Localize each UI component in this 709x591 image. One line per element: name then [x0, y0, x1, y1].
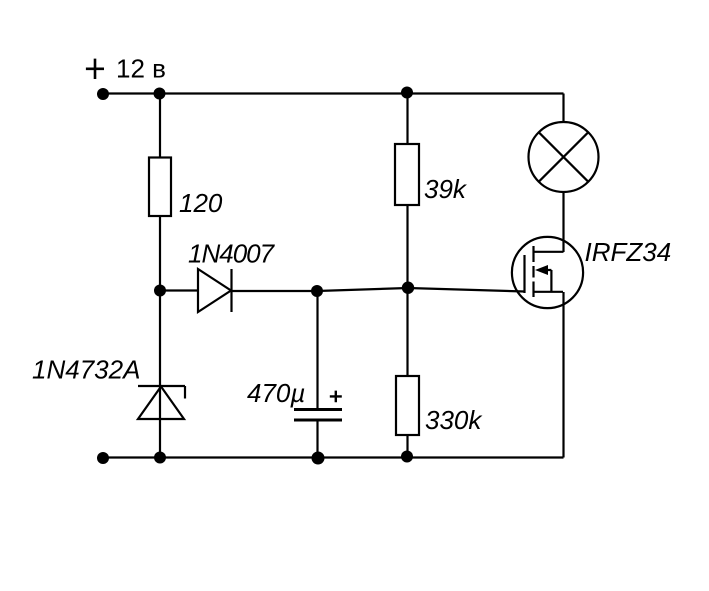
capacitor 470µ: [247, 291, 342, 458]
label +12V supply: [86, 54, 166, 84]
node bottom rail / left column junction: [154, 452, 166, 464]
svg-text:120: 120: [179, 188, 223, 218]
node top rail / middle column junction: [401, 87, 413, 99]
wire middle column middle: [406, 205, 408, 376]
wire left column lower: [159, 216, 161, 458]
node top-left terminal: [97, 88, 109, 100]
wire left column upper: [159, 94, 161, 158]
svg-text:12 в: 12 в: [116, 54, 166, 84]
wire top rail: [103, 92, 564, 94]
wire diode anode lead: [160, 289, 198, 291]
wire mosfet source to bottom rail: [562, 292, 564, 458]
node bottom-left terminal: [97, 452, 109, 464]
resistor 39k: [395, 144, 468, 205]
node bottom rail / capacitor junction: [312, 452, 325, 465]
node top rail / left column junction: [154, 88, 166, 100]
svg-text:1N4007: 1N4007: [188, 239, 276, 269]
node left column / diode row junction: [154, 285, 166, 297]
transistor IRFZ34 MOSFET: [512, 237, 671, 308]
wire lamp top lead: [562, 94, 564, 123]
resistor 330k: [396, 376, 483, 435]
node bottom rail / middle column junction: [401, 451, 413, 463]
wire bottom rail: [103, 456, 564, 458]
diode 1N4007: [188, 239, 276, 313]
wire diode row to gate: [232, 288, 525, 292]
resistor 120: [149, 158, 223, 219]
svg-text:1N4732A: 1N4732A: [32, 355, 140, 385]
svg-text:IRFZ34: IRFZ34: [585, 237, 672, 267]
wire middle column upper: [406, 93, 408, 145]
node divider midpoint junction: [402, 282, 414, 294]
node diode row / capacitor junction: [311, 285, 323, 297]
lamp: [529, 122, 599, 192]
wire middle column lower: [406, 435, 408, 458]
svg-text:39k: 39k: [424, 174, 468, 204]
zener diode 1N4732A: [32, 355, 185, 420]
wire lamp to drain: [562, 192, 564, 252]
svg-text:470µ: 470µ: [247, 378, 305, 408]
svg-text:330k: 330k: [425, 405, 483, 435]
